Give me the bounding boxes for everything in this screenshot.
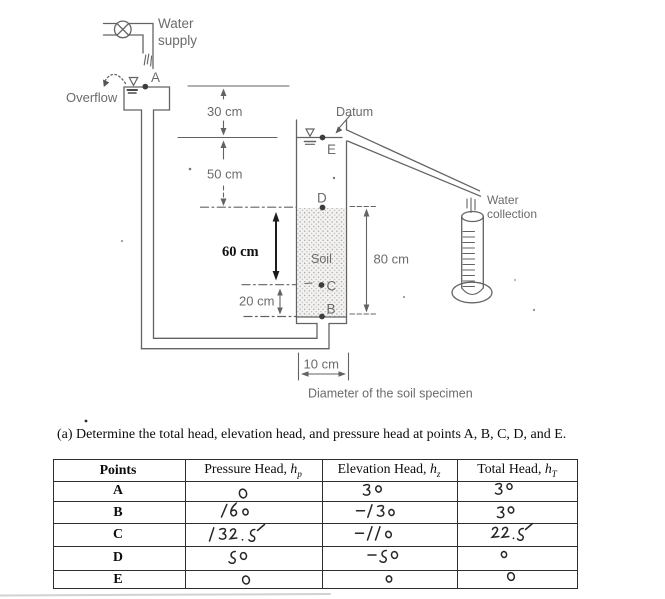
table header Points — [100, 462, 137, 478]
table frame — [53, 459, 578, 589]
hw A total 30 — [495, 483, 512, 494]
svg-text:Datum: Datum — [336, 105, 373, 119]
hw B total 30 — [497, 506, 514, 517]
hw A elevation 30 — [363, 485, 381, 496]
dimension 60 cm (bold) — [222, 212, 279, 281]
table header Total Head — [477, 461, 557, 479]
svg-text:Soil: Soil — [311, 252, 332, 266]
svg-text:10 cm: 10 cm — [304, 357, 339, 372]
scan streak bottom left — [0, 594, 330, 596]
svg-text:30 cm: 30 cm — [207, 104, 242, 119]
cylinder graduations — [463, 232, 475, 287]
short dash inside column at C — [305, 282, 312, 285]
svg-text:20 cm: 20 cm — [239, 294, 274, 309]
hw E total 0 — [507, 572, 515, 581]
hw D total 0 — [501, 551, 507, 558]
table header Elevation Head — [338, 461, 441, 479]
soil column walls — [297, 120, 347, 324]
svg-text:80 cm: 80 cm — [374, 252, 409, 267]
hw C pressure 132.5 — [210, 525, 265, 542]
hw E elevation 0 — [386, 575, 393, 582]
hw B pressure 160 — [222, 501, 249, 517]
row label C — [113, 526, 123, 542]
svg-text:A: A — [151, 70, 160, 85]
point A — [142, 70, 160, 90]
point D — [317, 191, 327, 211]
hw C elevation -110 — [356, 527, 392, 540]
row label A — [113, 482, 123, 498]
svg-text:collection: collection — [487, 207, 537, 221]
row label D — [113, 549, 123, 565]
handwritten answers — [210, 483, 533, 585]
dimension 20 cm — [239, 289, 283, 315]
svg-text:E: E — [327, 142, 336, 157]
standpipe from tank — [142, 110, 154, 349]
C-level dash-dot line — [242, 284, 296, 286]
svg-text:C: C — [327, 279, 337, 294]
graduated cylinder (water collection) — [452, 212, 492, 303]
stray specks — [85, 168, 536, 423]
svg-text:50 cm: 50 cm — [207, 167, 242, 182]
column water surface line — [297, 129, 343, 144]
D-level dash-dot line — [201, 206, 297, 208]
svg-text:supply: supply — [158, 33, 197, 48]
svg-text:Diameter of the soil specimen: Diameter of the soil specimen — [308, 387, 473, 401]
svg-text:60 cm: 60 cm — [222, 244, 259, 260]
water supply pipe — [104, 24, 154, 69]
dimension 10 cm — [299, 353, 349, 380]
hw D pressure 50 — [229, 551, 247, 563]
row label E — [113, 571, 122, 587]
paragraph (a) — [57, 427, 566, 443]
hw E pressure 0 — [242, 575, 251, 584]
hw C total 22.5 — [492, 524, 532, 541]
soil bottom line (B level) — [297, 316, 347, 318]
pipe riser into column base — [317, 324, 329, 349]
hw A pressure 0 — [238, 488, 247, 498]
dimension 50 cm — [207, 141, 242, 207]
falling water from supply pipe — [144, 54, 151, 66]
label Datum with arrow — [336, 105, 374, 134]
A-level reference line — [188, 85, 289, 87]
svg-text:B: B — [327, 302, 336, 317]
table header Pressure Head — [204, 461, 302, 479]
dimension 30 cm — [207, 89, 242, 136]
valve V1 — [115, 21, 132, 38]
B-level dash-dot line — [244, 316, 296, 318]
label Water supply — [158, 16, 197, 48]
E-level reference line — [178, 137, 277, 139]
row label B — [113, 504, 122, 520]
point B — [319, 302, 335, 320]
svg-text:Water: Water — [487, 193, 519, 207]
point C — [319, 279, 337, 294]
falling water into cylinder — [467, 198, 475, 213]
svg-text:Water: Water — [158, 16, 194, 31]
overflow arc arrow — [103, 74, 126, 87]
bottom pipe run — [142, 338, 330, 348]
label Water collection — [487, 193, 537, 221]
hw B elevation -130 — [357, 505, 395, 518]
dimension 80 cm — [350, 207, 409, 315]
point E — [320, 135, 336, 157]
outflow spout — [347, 130, 481, 196]
soil body stipple — [297, 208, 346, 317]
svg-text:D: D — [317, 191, 327, 206]
overflow tank — [124, 87, 170, 110]
tank water surface symbol — [128, 78, 138, 94]
hw D elevation -50 — [368, 550, 398, 562]
svg-text:Overflow: Overflow — [66, 90, 118, 105]
